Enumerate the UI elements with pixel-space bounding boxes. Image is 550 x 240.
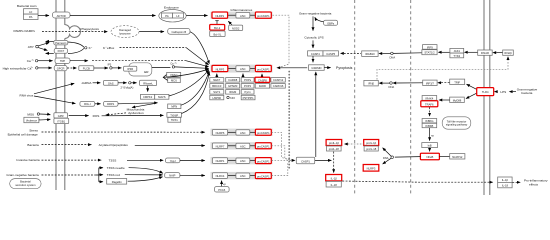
svg-text:ITGB1: ITGB1 — [57, 119, 65, 123]
gene box NLRP3 (red) — [363, 165, 379, 172]
svg-text:OAS: OAS — [108, 81, 114, 85]
wire CASP4 to GSDMD — [312, 56, 314, 62]
wire ASC-proCASP1 — [250, 67, 256, 69]
wire lysosome to cathepsin — [139, 31, 164, 33]
wire bacteria to cytosolic LPS — [312, 16, 314, 30]
svg-text:NLRP1: NLRP1 — [216, 159, 225, 163]
box CMPK2 — [141, 94, 155, 99]
svg-text:Inflammasomes: Inflammasomes — [231, 8, 253, 12]
box TYK2 — [450, 53, 464, 58]
wire TRIF to IRF dashed — [437, 81, 441, 84]
box IKBKB — [422, 123, 437, 127]
svg-text:IRGB10: IRGB10 — [365, 52, 375, 56]
wire DNA to proIL genes — [383, 148, 392, 157]
wire stress dashed to NLRP6 — [42, 131, 205, 133]
wire endosome to NLRP1 — [186, 15, 207, 17]
box TRIF — [450, 79, 465, 84]
svg-text:NLRC4: NLRC4 — [216, 174, 225, 178]
svg-text:Pannexin: Pannexin — [55, 41, 67, 45]
box STAT1/2 — [422, 50, 437, 55]
cell membrane left line 2 (gap for phagocytic cup) — [64, 0, 66, 25]
box CARD16 — [271, 84, 285, 89]
wire ATP release out (upper) — [46, 40, 54, 42]
box IRF9 — [423, 45, 437, 50]
stadium Bacterial secretion system — [10, 179, 41, 189]
svg-text:POP1: POP1 — [244, 84, 252, 88]
svg-text:GSDMD: GSDMD — [311, 66, 321, 70]
wire flagellin to NAIP — [128, 177, 163, 181]
svg-text:Gram-negative bacteria: Gram-negative bacteria — [299, 11, 332, 15]
wire IFNAR to JAK — [464, 51, 468, 54]
svg-text:JAK1: JAK1 — [454, 49, 461, 53]
box CASP8 (red) — [255, 77, 270, 82]
channel funnel lower arc — [68, 48, 84, 53]
svg-text:TRIF: TRIF — [454, 80, 460, 84]
box CARD8 — [226, 78, 240, 83]
svg-text:Pyrin: Pyrin — [245, 90, 252, 94]
box GSDMD — [309, 65, 325, 71]
svg-text:IRF9: IRF9 — [427, 45, 433, 49]
svg-text:Endosome: Endosome — [164, 6, 179, 10]
box IL-1b secreted — [498, 177, 512, 182]
svg-text:CASP8: CASP8 — [258, 78, 267, 82]
svg-text:ATP: ATP — [28, 45, 34, 49]
phagocytic cup — [65, 25, 81, 39]
wire PA to ANTXR — [38, 15, 49, 17]
wire receptor to ROS — [69, 115, 89, 117]
wire T3SS to YopJ — [127, 159, 163, 161]
box proCASP1 top (red) — [255, 12, 271, 18]
wire TRP dashed to NLRP3 — [92, 60, 186, 62]
svg-text:IRAK4: IRAK4 — [426, 96, 434, 100]
svg-text:proIL-18: proIL-18 — [329, 147, 340, 151]
svg-text:Epithelial cell damage: Epithelial cell damage — [8, 133, 38, 137]
svg-text:TRX1: TRX1 — [171, 118, 178, 122]
box proCASP1 (NLRP6 row, red) — [255, 129, 271, 135]
wire TLR4 to TRIF — [467, 84, 477, 89]
svg-text:TLR4: TLR4 — [482, 90, 489, 94]
svg-text:Cathepsin B: Cathepsin B — [171, 30, 186, 34]
box GBPs — [324, 20, 338, 25]
svg-text:proCASP1: proCASP1 — [257, 67, 270, 71]
gene box proIL-1b (red) — [364, 140, 379, 146]
node NO — [227, 96, 229, 98]
wire dysfunction to ROS — [106, 113, 126, 115]
node DNA (IRGB10) — [391, 52, 394, 55]
box ASC top — [236, 12, 250, 18]
box JAK1 — [450, 48, 464, 53]
nuclear boundary dashed right — [410, 0, 412, 195]
inflammasome complex backing NLRP1b — [211, 157, 273, 164]
svg-text:IFNAR: IFNAR — [481, 51, 489, 55]
svg-text:GBPs: GBPs — [327, 21, 335, 25]
box IRF3/7 — [423, 80, 437, 85]
wire VDAC/MCU to NLRP3 — [163, 69, 208, 77]
node Ca2+ circle — [35, 60, 37, 62]
wire RNA virus to dsRNA — [34, 83, 74, 93]
svg-text:proCASP1: proCASP1 — [257, 159, 270, 163]
svg-text:SGT1: SGT1 — [213, 90, 221, 94]
box ASC (NLRP1 row) — [236, 158, 250, 163]
svg-text:MAVS: MAVS — [158, 95, 166, 99]
box MyD88 — [450, 97, 465, 102]
receptor IFNAR — [478, 50, 493, 55]
box NLRP1 (red) — [212, 12, 228, 18]
box GPSM3 — [226, 84, 240, 89]
box BRCC3 — [210, 84, 224, 89]
enzyme OAS — [104, 81, 119, 86]
box NOD2 — [229, 25, 243, 30]
wire NFkB to NLRP12 — [439, 155, 449, 157]
wire TLR4 to MyD88 — [466, 93, 477, 98]
wire invasive dashed — [42, 159, 102, 161]
wire IKK to IkB +p — [429, 128, 431, 141]
sensor RIG-I — [80, 101, 95, 106]
wire rod to NAIP — [125, 174, 163, 176]
wire DNA to NLRP3 gene — [383, 158, 392, 164]
box proCASP1 (NLRP1 row, red) — [255, 158, 271, 164]
box TRAF6 (red) — [421, 101, 438, 107]
svg-text:PA: PA — [165, 14, 169, 18]
wire IkB to NFkB dashed — [429, 148, 431, 152]
svg-text:signaling pathway: signaling pathway — [446, 123, 468, 127]
activation NOD2 to NLRP1 — [228, 21, 232, 25]
svg-text:2’-5’olig(A): 2’-5’olig(A) — [121, 85, 134, 89]
box ASC main — [236, 66, 250, 72]
svg-text:LF: LF — [176, 14, 179, 18]
svg-text:ASC: ASC — [240, 144, 246, 148]
wire NLRP7 row to CASP1 dashed — [272, 146, 292, 161]
wire RNA virus to RIG-I — [34, 96, 75, 104]
wire PLCB to IP3 — [94, 67, 108, 69]
svg-text:ASC: ASC — [240, 159, 246, 163]
svg-text:NLRP6: NLRP6 — [216, 131, 225, 135]
svg-text:NO: NO — [230, 96, 235, 100]
wire MyD88 to TRAF6 — [439, 99, 443, 102]
box PA — [24, 14, 39, 19]
box CASP12 — [271, 78, 285, 83]
wire YopJ to NLRP1b — [180, 159, 205, 161]
svg-text:RNA virus: RNA virus — [20, 94, 34, 98]
svg-text:MCU: MCU — [171, 79, 177, 83]
wire dsRNA to OAS — [93, 82, 101, 84]
wire STAT to DNA — [393, 52, 421, 55]
svg-text:IKBKB: IKBKB — [425, 124, 433, 128]
box MAVS — [155, 94, 169, 99]
wire DRP1 to mitochondria — [118, 103, 158, 104]
box proCASP1 (NLRC4 row, red) — [255, 173, 271, 179]
box PA in endosome — [162, 13, 173, 18]
wire CASP8 to proCASP1 — [261, 74, 263, 78]
wire JAK to STAT — [438, 51, 442, 54]
wire ATP to Pannexin — [38, 43, 49, 46]
wire NAIP to NLRC4 — [180, 174, 205, 176]
box proIL-1b cytoplasm (red) — [326, 140, 342, 146]
svg-text:bacteria: bacteria — [521, 91, 532, 95]
box POPs — [241, 78, 254, 83]
wire bacteria to LPS — [509, 90, 513, 93]
wire ANTXR to endosome — [70, 15, 156, 17]
wire TRP out arrow — [70, 60, 88, 62]
svg-text:PLCB: PLCB — [83, 67, 90, 71]
wire IP3 to IP3R — [112, 67, 121, 69]
svg-text:NLRP7: NLRP7 — [216, 144, 225, 148]
wire LPS to CASP4 — [312, 40, 314, 48]
box ASC (NLRC4 row) — [236, 173, 250, 178]
wire GPCR to PLCB dashed — [67, 67, 76, 69]
svg-text:High extracellular Ca: High extracellular Ca — [3, 66, 32, 70]
svg-text:Acylated lipopeptides: Acylated lipopeptides — [99, 143, 129, 147]
svg-text:IL-1β: IL-1β — [502, 178, 509, 182]
box POP1 — [241, 84, 254, 89]
box IFNab — [503, 50, 514, 55]
wire IRF to DNA — [392, 82, 396, 85]
svg-text:Cytosolic LPS: Cytosolic LPS — [304, 36, 323, 40]
svg-text:proCASP1: proCASP1 — [257, 145, 270, 149]
svg-text:ROS: ROS — [93, 114, 100, 118]
box Virulence — [24, 117, 39, 122]
box IRGM — [226, 90, 240, 95]
box proCASP1 (NLRP7 row, red) — [255, 143, 271, 149]
svg-text:HSP90: HSP90 — [213, 96, 222, 100]
box LF in endosome — [173, 13, 184, 18]
channel TRP — [55, 58, 70, 63]
cell membrane right line 2 — [489, 0, 491, 195]
inflammasome complex backing NLRP6 — [211, 129, 273, 136]
svg-text:MSU: MSU — [27, 113, 34, 117]
svg-text:RIG-I: RIG-I — [84, 102, 91, 106]
cell membrane left line 1 — [55, 0, 57, 190]
box PSTPIP1 — [241, 95, 255, 100]
enzyme RNaseL — [140, 80, 157, 85]
inflammasome complex backing top — [211, 12, 273, 19]
svg-text:IRGM: IRGM — [229, 90, 237, 94]
svg-text:IL-18: IL-18 — [502, 184, 509, 188]
svg-text:efflux: efflux — [107, 46, 115, 50]
box NLRP7 — [212, 143, 227, 149]
svg-text:ASC: ASC — [240, 14, 246, 18]
protein TXNIP — [167, 113, 182, 118]
junction arrow into CASP1 — [292, 159, 296, 162]
box Bcl-XL — [210, 31, 225, 37]
wire Ca release to NLRP3 — [152, 66, 171, 68]
node ATP circle — [36, 45, 39, 48]
wire Virulence to receptor — [39, 118, 51, 121]
svg-text:GPCR: GPCR — [57, 67, 65, 71]
svg-text:dysfunction: dysfunction — [128, 111, 144, 115]
svg-text:CASP5: CASP5 — [326, 52, 335, 56]
svg-text:P2X7: P2X7 — [58, 49, 65, 53]
box IL-18 secreted — [498, 182, 512, 187]
svg-text:dsRNA: dsRNA — [82, 81, 93, 85]
wire gene to cytoplasmic proIL — [344, 143, 348, 146]
svg-text:CARD16: CARD16 — [273, 84, 284, 88]
svg-text:IL-18: IL-18 — [331, 183, 338, 187]
damaged lysosome ellipse — [111, 26, 139, 38]
wire LPS to TLR4 — [494, 90, 498, 93]
svg-text:IFNαβ: IFNαβ — [504, 51, 512, 55]
svg-text:proIL-1β: proIL-1β — [366, 141, 377, 145]
cell membrane right line 1 — [483, 0, 485, 195]
channel Pannexin — [54, 40, 68, 45]
svg-text:Bacteria: Bacteria — [27, 143, 39, 147]
wire ATP release out (lower) — [46, 52, 54, 54]
wire IFNab to IFNAR — [492, 51, 496, 54]
svg-text:BRCC3: BRCC3 — [212, 84, 222, 88]
wire lipopeptides to NLRP7 — [135, 144, 205, 146]
protein MFN — [168, 104, 181, 109]
wire OAS to oligA — [118, 82, 127, 84]
wire TXNIP to NLRP3 — [182, 72, 210, 113]
box NLRP1b — [212, 158, 227, 164]
svg-text:DRP1: DRP1 — [107, 102, 115, 106]
box SGT1 — [210, 90, 224, 95]
svg-text:IKBKG: IKBKG — [425, 119, 433, 123]
svg-text:NEK7: NEK7 — [213, 78, 221, 82]
box IKBKG — [422, 119, 437, 123]
wire mito dysfunction arrow — [132, 103, 155, 107]
box LF — [24, 9, 39, 14]
wire needle to NAIP — [129, 168, 163, 174]
wire IRGB10 to CASP5 dashed — [340, 52, 344, 55]
box ASC (NLRP6 row) — [236, 130, 250, 135]
node MSU circle — [37, 113, 39, 115]
box NLRP12 — [450, 154, 465, 159]
wire TRAF6 to IKK dashed — [429, 107, 431, 116]
svg-text:LF: LF — [29, 10, 32, 14]
wire NEK7 to NLRP3 — [216, 74, 218, 78]
svg-text:FADD: FADD — [259, 84, 266, 88]
svg-text:ANTXR: ANTXR — [57, 14, 66, 18]
wire NLRP1-ASC — [228, 14, 237, 16]
svg-text:RNaseL: RNaseL — [143, 81, 153, 85]
svg-text:IFNβ: IFNβ — [368, 82, 374, 86]
svg-text:PA: PA — [29, 15, 33, 19]
gene box proIL-18 — [364, 146, 378, 151]
node circle — [36, 67, 38, 69]
svg-text:Pyroptosis: Pyroptosis — [336, 66, 353, 70]
wire Ca2+ to TRP — [38, 60, 53, 62]
receptor TLR4 (red) — [477, 88, 494, 96]
svg-text:DNA: DNA — [389, 56, 395, 60]
svg-text:POPs: POPs — [244, 78, 252, 82]
box IkB — [422, 143, 438, 148]
svg-text:ASC: ASC — [240, 174, 246, 178]
svg-text:NLRP1: NLRP1 — [215, 14, 224, 18]
svg-text:ASC: ASC — [240, 131, 246, 135]
wire GSDMD to Pyroptosis — [324, 67, 330, 69]
svg-text:ER: ER — [144, 70, 149, 74]
svg-text:proIL-1β: proIL-1β — [329, 141, 340, 145]
wire DNA to IFNb — [379, 82, 383, 85]
svg-text:Invasive bacteria: Invasive bacteria — [16, 158, 39, 162]
box ASC (NLRP7 row) — [236, 143, 250, 148]
svg-text:Bcl-2: Bcl-2 — [214, 26, 221, 30]
wire to effects dashed — [512, 181, 520, 183]
inflammasome complex backing main — [211, 65, 273, 73]
wire K+ efflux dashed — [120, 47, 187, 49]
svg-text:Bacterial: Bacterial — [20, 180, 31, 184]
svg-text:PAMPs DAMPs: PAMPs DAMPs — [14, 29, 36, 33]
bracket VDAC/MCU — [163, 75, 167, 81]
wire K+ efflux to NLRP3 — [186, 48, 209, 65]
wire ATP to P2X7 — [38, 48, 47, 51]
wire bacteria dashed — [42, 144, 92, 146]
wire cathepsin B to NLRP3 — [190, 32, 209, 64]
protein DRP1 — [104, 101, 119, 106]
wire ASC-proCASP1 — [250, 14, 256, 16]
wire POPs to ASC — [242, 74, 244, 78]
svg-text:ASC: ASC — [240, 67, 246, 71]
wire CASP1 to GSDMD — [315, 72, 317, 157]
gene box IRGB10 — [362, 51, 378, 57]
wire ROS to TXNIP — [102, 114, 164, 116]
wire GBPs to bacteria — [315, 17, 324, 22]
svg-text:proCASP1: proCASP1 — [257, 131, 270, 135]
wire MFN to NLRP3 — [181, 71, 209, 105]
svg-text:proCASP1: proCASP1 — [257, 14, 270, 18]
box NLRP6 — [212, 130, 227, 136]
GSDMD pore (membrane circles) — [288, 72, 290, 170]
svg-text:TRP: TRP — [60, 59, 66, 63]
svg-text:DNA: DNA — [383, 156, 389, 160]
wire MSU to receptor — [40, 113, 51, 116]
svg-text:CARD8: CARD8 — [228, 78, 238, 82]
svg-text:YopJ: YopJ — [170, 159, 177, 163]
svg-text:NLRP3: NLRP3 — [216, 67, 225, 71]
pathway ellipse Toll-like receptor signaling — [442, 117, 471, 129]
box Flagellin — [107, 179, 127, 185]
svg-text:TRAF6: TRAF6 — [425, 102, 434, 106]
wire top inflammasome to proCASP1 main (dashed) — [273, 15, 290, 67]
wire NLRP1 row to CASP1 dashed — [272, 160, 292, 162]
svg-text:NOD2: NOD2 — [232, 26, 240, 30]
fork bracket — [95, 168, 99, 182]
wire NLRP6 row to CASP1 dashed — [272, 132, 292, 160]
svg-text:GPR: GPR — [58, 114, 64, 118]
nuclear boundary dashed left — [354, 0, 356, 195]
box Pyrin — [241, 90, 254, 95]
wire gram-negative dashed — [42, 174, 96, 176]
svg-text:MyD88: MyD88 — [453, 98, 462, 102]
inflammasome complex backing NLRP7 — [211, 142, 273, 149]
gene box IFNb — [364, 80, 378, 86]
box HSP90 — [210, 95, 224, 100]
wire PKCd to NLRC4 — [221, 181, 223, 187]
svg-text:Bacterial toxin: Bacterial toxin — [17, 4, 37, 8]
svg-text:Virulence: Virulence — [26, 119, 38, 123]
svg-text:lysosome: lysosome — [119, 31, 131, 35]
svg-text:DNA: DNA — [389, 85, 395, 89]
node DNA (NFkB) — [391, 156, 394, 159]
svg-text:PKCδ: PKCδ — [218, 188, 226, 192]
svg-text:NFκB: NFκB — [427, 155, 434, 159]
svg-text:NLRP12: NLRP12 — [452, 155, 463, 159]
box NFkB (red) — [420, 153, 439, 159]
svg-text:TXNIP: TXNIP — [170, 113, 178, 117]
svg-text:TYK2: TYK2 — [453, 54, 460, 58]
svg-text:STAT1/2: STAT1/2 — [424, 51, 435, 55]
svg-text:MFN: MFN — [171, 105, 177, 109]
svg-text:effects: effects — [529, 182, 539, 186]
wire IFNb secretion dashed — [377, 58, 508, 79]
box Bcl-2 (red) — [210, 25, 225, 31]
channel funnel upper arc — [68, 42, 84, 47]
svg-text:proCASP1: proCASP1 — [257, 174, 270, 178]
wire RIG-I to DRP1 — [95, 103, 101, 105]
wire CASP1 to cleavage point — [313, 159, 331, 161]
box PKCd — [215, 187, 230, 192]
